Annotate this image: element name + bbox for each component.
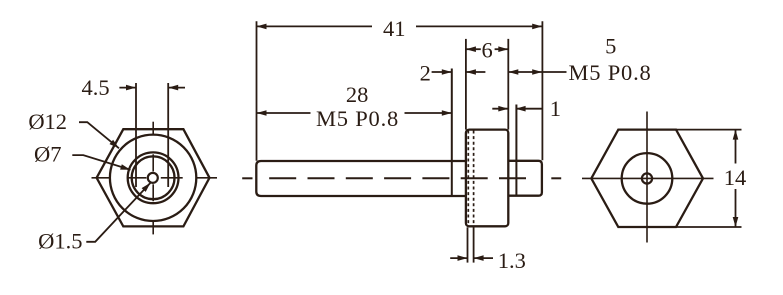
svg-text:Ø1.5: Ø1.5 — [38, 229, 82, 254]
svg-text:5: 5 — [605, 33, 616, 58]
svg-text:1.3: 1.3 — [498, 248, 526, 273]
svg-text:2: 2 — [420, 60, 431, 85]
svg-text:6: 6 — [481, 38, 492, 63]
svg-text:14: 14 — [724, 165, 747, 190]
svg-text:Ø12: Ø12 — [28, 109, 67, 134]
svg-text:41: 41 — [383, 16, 406, 41]
svg-text:Ø7: Ø7 — [34, 142, 62, 167]
svg-text:M5 P0.8: M5 P0.8 — [316, 106, 399, 131]
svg-text:4.5: 4.5 — [82, 75, 110, 100]
svg-text:28: 28 — [346, 82, 369, 107]
svg-text:1: 1 — [550, 96, 561, 121]
svg-text:M5 P0.8: M5 P0.8 — [568, 60, 651, 85]
